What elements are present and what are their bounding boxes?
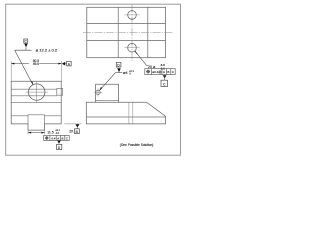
datum B stem (76, 128, 78, 129)
top view lower edge line (87, 40, 166, 42)
svg-text:A: A (163, 70, 166, 74)
hole circle upper (128, 11, 137, 20)
front view edge line 1 (11, 88, 57, 90)
svg-text:C: C (172, 70, 175, 74)
leader from lower hole to hole callout (135, 51, 147, 65)
width dimension right arrowhead (58, 63, 61, 65)
position symbol in holes FCF (147, 70, 150, 73)
top view upper edge line (87, 22, 166, 24)
small hole leader arrowhead (99, 87, 102, 91)
sheet border frame (6, 4, 181, 155)
small hole crosshair vertical (97, 88, 99, 96)
bore crosshair vertical (36, 81, 38, 103)
dia 12.2 leader shoulder (15, 49, 32, 51)
datum flag C above leader shoulder (24, 39, 28, 43)
datum B square (75, 129, 80, 134)
tab right vertical edge (44, 115, 46, 124)
svg-text:0: 0 (129, 73, 131, 76)
front view edge line 3 (11, 102, 61, 104)
svg-text:⌀4: ⌀4 (123, 70, 128, 75)
small hole circle in side view (96, 90, 100, 94)
top view outline (87, 7, 166, 57)
tab extension line right (44, 130, 46, 135)
front view right boss box (57, 89, 63, 96)
datum feature symbol below bottom FCF (57, 141, 60, 144)
side view body outline (86, 102, 165, 124)
svg-text:⌀0.4Ⓜ: ⌀0.4Ⓜ (152, 69, 161, 74)
left extension line (10, 61, 12, 81)
datum D triangle (117, 68, 120, 72)
datum C stem (25, 47, 27, 50)
side view hole hidden line right (132, 102, 134, 124)
dia 12.2 leader line (15, 50, 33, 85)
svg-text:(One Possible Solution): (One Possible Solution) (120, 143, 154, 147)
top view vertical centerline through holes (131, 5, 133, 61)
width dimension line 50.5/49.5 (11, 63, 61, 65)
tab width dimension 11.5 (28, 132, 45, 134)
svg-text:49.5: 49.5 (33, 62, 40, 66)
top view left vertical edge (117, 7, 119, 57)
bore crosshair horizontal (26, 91, 48, 93)
hole lower crosshair (125, 47, 140, 49)
dia 12.2 arrowhead at bore (31, 81, 33, 84)
leader arrowhead at lower hole (135, 51, 138, 54)
svg-text:⌀ 12.2 ± 0.2: ⌀ 12.2 ± 0.2 (36, 48, 58, 53)
svg-text:0.4: 0.4 (51, 136, 56, 140)
front view edge line 2 (11, 95, 57, 97)
side view hole hidden line left (128, 102, 130, 124)
side view boss bottom edge (96, 99, 119, 101)
side view upper boss outline (96, 84, 119, 102)
right extension line (61, 61, 63, 81)
svg-text:-0.1: -0.1 (55, 132, 60, 135)
svg-text:A: A (57, 136, 59, 140)
svg-text:D: D (58, 146, 61, 150)
svg-text:2X: 2X (69, 129, 74, 133)
svg-text:B: B (62, 136, 64, 140)
hole upper crosshair (125, 14, 140, 16)
small hole crosshair horizontal (94, 91, 102, 93)
position symbol in bottom FCF (46, 137, 48, 139)
front view step edge middle (28, 114, 45, 116)
tab extension line left (27, 130, 29, 135)
datum B triangle (75, 124, 79, 127)
top view right vertical edge (147, 7, 149, 57)
width dimension left arrowhead (11, 63, 14, 65)
datum B extension line (64, 123, 81, 125)
tab left vertical edge (27, 115, 29, 124)
front view outline with bottom tab (11, 81, 61, 130)
tab dimension left arrowhead (28, 132, 31, 134)
front view bore circle (29, 84, 45, 100)
top view horizontal centerline (83, 32, 174, 34)
svg-text:B: B (167, 70, 169, 74)
hole circle lower (128, 43, 137, 52)
front view step edge left (11, 115, 28, 117)
svg-text:C: C (66, 136, 69, 140)
datum C triangle (24, 44, 27, 48)
text mask for limit dimension (29, 59, 39, 65)
datum flag A on right extension (62, 62, 65, 66)
datum flag D on small hole leader (116, 62, 121, 67)
svg-text:C: C (163, 83, 166, 87)
datum feature symbol below holes FCF (163, 75, 167, 78)
small hole leader line (99, 73, 115, 91)
front view step edge right (45, 115, 62, 117)
feature control frame below front view (44, 135, 69, 140)
feature control frame for holes (145, 69, 175, 75)
side view internal edge (86, 116, 165, 118)
tab dimension right arrowhead (41, 132, 44, 134)
svg-text:11.5: 11.5 (47, 130, 54, 134)
